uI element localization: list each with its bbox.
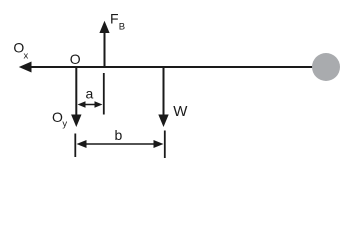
svg-text:W: W <box>173 103 188 120</box>
svg-text:x: x <box>24 51 29 62</box>
svg-text:B: B <box>119 22 125 33</box>
svg-text:O: O <box>70 51 81 67</box>
svg-text:a: a <box>86 85 94 101</box>
svg-text:b: b <box>115 127 123 143</box>
svg-text:O: O <box>52 109 63 125</box>
svg-text:F: F <box>110 11 119 27</box>
svg-text:y: y <box>62 119 67 130</box>
